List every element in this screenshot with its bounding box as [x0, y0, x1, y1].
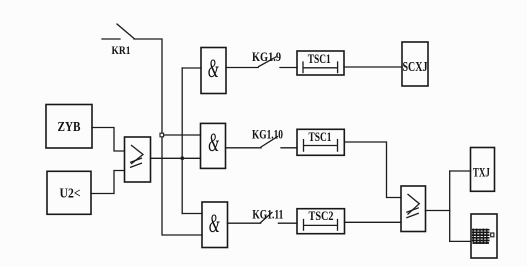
svg-text:&: &: [208, 54, 219, 83]
svg-text:KG1.11: KG1.11: [252, 207, 283, 222]
svg-text:KG1.10: KG1.10: [252, 127, 283, 142]
svg-text:TXJ: TXJ: [473, 165, 490, 180]
svg-text:&: &: [208, 128, 219, 157]
svg-text:TSC1: TSC1: [309, 129, 332, 144]
svg-text:TSC1: TSC1: [308, 51, 331, 66]
svg-text:U2<: U2<: [60, 187, 81, 202]
svg-text:TSC2: TSC2: [309, 208, 334, 223]
svg-text:SCXJ: SCXJ: [403, 60, 428, 75]
svg-text:KG1.9: KG1.9: [252, 49, 281, 64]
svg-text:&: &: [209, 209, 220, 238]
svg-text:KR1: KR1: [112, 45, 131, 57]
svg-text:ZYB: ZYB: [58, 120, 81, 135]
